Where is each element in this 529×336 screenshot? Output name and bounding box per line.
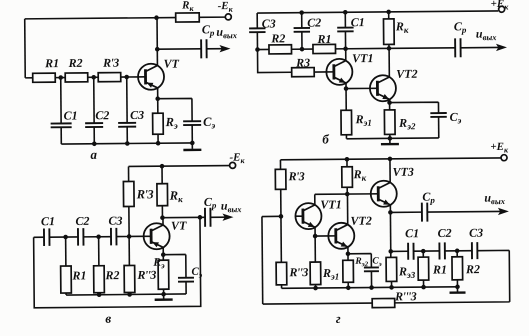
- wire: R2 bottom lead (v): [98, 293, 100, 295]
- svg-text:г: г: [336, 311, 341, 326]
- resistor Rk (g): [342, 167, 353, 188]
- wire: chain seg1 (g): [391, 250, 408, 252]
- svg-text:C2: C2: [438, 226, 452, 240]
- capacitor C3 (a): [118, 123, 136, 127]
- resistor Rk (b): [383, 19, 394, 45]
- resistor R'3 (a): [98, 73, 121, 82]
- resistor R1 (b): [313, 44, 336, 53]
- capacitor Cp (g): [422, 203, 428, 222]
- resistor R2 (b): [269, 45, 292, 54]
- output arrow (b): [496, 44, 507, 51]
- wire: bottom loop seg1 (g): [263, 302, 372, 305]
- node: top rail C1 (b): [343, 10, 348, 15]
- wire: circuit a base line seg2: [55, 77, 65, 79]
- wire: Ce bottom lead (v): [185, 282, 187, 294]
- node: feedback tap (v): [198, 215, 203, 220]
- node: left R2 junction (b): [255, 47, 260, 52]
- terminal -Ek (v): [230, 162, 236, 168]
- svg-text:R'''3: R'''3: [394, 289, 417, 303]
- resistor R1 (g): [418, 257, 429, 280]
- wire: feedback loop (v): [33, 217, 200, 307]
- wire: chain seg4 (v): [116, 235, 129, 237]
- svg-text:C1: C1: [351, 15, 365, 29]
- wire: R2 bottom lead (g): [456, 280, 458, 287]
- wire: C3 top lead (b): [256, 13, 258, 28]
- wire: C2 top lead (b): [301, 13, 303, 28]
- wire: R1 top lead (g): [422, 251, 424, 257]
- svg-text:R2: R2: [68, 56, 83, 70]
- wire: VT1 emitter lead (b): [345, 83, 347, 89]
- wire: R''3 bottom lead (v): [129, 292, 131, 294]
- wire: VT1 collector lead (g): [314, 194, 316, 204]
- svg-text:R2: R2: [104, 268, 119, 282]
- wire: Re1 top lead (b): [345, 89, 347, 111]
- wire: R''3 bottom lead (g): [281, 285, 283, 288]
- node: C2-C3 junction (v): [96, 234, 101, 239]
- wire: R''3 top lead (v): [128, 236, 130, 265]
- node: R'3-base junction (a): [124, 75, 129, 80]
- wire: C2 bottom lead (b): [301, 32, 303, 49]
- wire: chain seg2 (g): [414, 250, 440, 252]
- resistor R''3 (g): [276, 262, 287, 285]
- wire: emitter to Ce (g): [348, 254, 371, 268]
- wire: R'3 bottom lead (v): [128, 206, 130, 236]
- node: VT1 collector junction (b): [343, 46, 348, 51]
- wire: C2 top lead (a): [93, 77, 95, 123]
- node: C1-C2 junction (g): [421, 249, 426, 254]
- wire: Rk top lead (v): [161, 166, 163, 183]
- svg-text:VT1: VT1: [320, 197, 341, 211]
- wire: VT2 collector lead (b): [388, 48, 390, 77]
- capacitor C1 (v): [44, 228, 50, 246]
- node: VT1 base junction (g): [279, 214, 284, 219]
- ground (b): [381, 138, 399, 144]
- capacitor Ce (a): [183, 121, 201, 125]
- transistor VT (v): [144, 223, 170, 249]
- ground (g): [449, 287, 465, 293]
- wire: circuit a Rk to -Ek terminal: [199, 16, 225, 18]
- node: rail Re/ground (v): [161, 292, 166, 297]
- wire: VT1 emitter to VT2 base (b): [346, 87, 370, 89]
- resistor R'3 (v): [123, 181, 134, 206]
- wire: Re bottom lead (v): [163, 289, 165, 294]
- capacitor Cp (v): [205, 208, 211, 227]
- svg-text:а: а: [90, 147, 97, 162]
- wire: emitter down to chain (g): [389, 212, 391, 251]
- wire: Re1 bottom lead (g): [315, 285, 317, 288]
- node: top rail Rk (g): [345, 157, 350, 162]
- svg-text:C1: C1: [63, 108, 77, 122]
- wire: VT1 collector lead (b): [345, 49, 347, 61]
- svg-text:б: б: [322, 131, 329, 146]
- svg-text:C2: C2: [75, 214, 89, 228]
- svg-text:C3: C3: [262, 16, 276, 30]
- node: rail Ce (g): [369, 285, 374, 290]
- wire: VT emitter lead (a): [157, 88, 159, 99]
- svg-text:R1: R1: [316, 32, 331, 46]
- wire: circuit a base line seg3: [88, 76, 98, 78]
- node: rail C2 (a): [92, 141, 97, 146]
- node: R2-R'3 junction (a): [91, 75, 96, 80]
- wire: C3 bottom lead (a): [126, 127, 128, 144]
- resistor R2 (a): [65, 73, 88, 82]
- svg-text:в: в: [105, 311, 111, 326]
- wire: circuit v bottom rail: [66, 294, 186, 295]
- wire: base wire (v): [129, 235, 144, 237]
- wire: bottom loop seg2 (g): [394, 250, 509, 303]
- svg-text:VT2: VT2: [350, 214, 371, 228]
- wire: output arrow line (v): [210, 216, 224, 218]
- node: VT2 emitter junction (g): [346, 251, 351, 256]
- wire: output arrow line (a): [207, 48, 222, 50]
- capacitor C3 (b): [249, 28, 265, 32]
- wire: circuit v top rail: [129, 165, 230, 168]
- node: rail R1 (g): [421, 285, 426, 290]
- node: collector/output junction (a): [155, 47, 160, 52]
- svg-text:R''3: R''3: [288, 265, 308, 279]
- wire: output line (g): [390, 211, 421, 213]
- transistor VT (a): [138, 64, 164, 90]
- ground (v): [155, 294, 173, 300]
- output arrow (v): [222, 213, 233, 220]
- transistor VT1 (b): [326, 59, 352, 85]
- node: VT2 emitter junction (b): [387, 100, 392, 105]
- transistor VT2 (b): [370, 75, 396, 101]
- capacitor Cp (a): [201, 39, 207, 58]
- resistor Re2 (g): [343, 260, 354, 282]
- wire: Re2 top lead (g): [347, 254, 349, 260]
- capacitor C1 (g): [408, 243, 414, 260]
- capacitor Ce (b): [430, 113, 446, 117]
- svg-text:R'3: R'3: [102, 56, 119, 70]
- svg-text:R3: R3: [295, 56, 310, 70]
- output arrow (a): [219, 45, 230, 52]
- wire: circuit b bottom rail: [346, 137, 438, 140]
- output arrow (g): [498, 208, 509, 215]
- wire: Re3 top lead (g): [390, 251, 392, 257]
- wire: output line (v): [162, 216, 205, 218]
- wire: output arrow line (g): [427, 210, 500, 213]
- wire: R1 bottom lead (g): [423, 280, 425, 287]
- terminal +Ek (g): [501, 155, 507, 161]
- ground (a): [183, 143, 201, 150]
- svg-text:VT: VT: [171, 218, 187, 232]
- wire: C2 bottom lead (a): [93, 127, 95, 144]
- svg-text:C1: C1: [405, 226, 419, 240]
- wire: C1 bottom lead (a): [60, 127, 62, 144]
- terminal -Ek (a): [225, 14, 231, 20]
- node: rail Re3 (g): [389, 285, 394, 290]
- node: ground junction (b): [388, 136, 393, 141]
- wire: circuit g ground rail: [282, 287, 458, 289]
- resistor R2 (v): [94, 266, 105, 293]
- wire: VT2 emitter lead (b): [389, 99, 391, 102]
- wire: Ce bottom lead (a): [191, 125, 193, 143]
- transistor VT1 (g): [295, 203, 321, 229]
- wire: R'3 top lead (v): [128, 166, 130, 181]
- wire: chain seg3 (v): [83, 236, 111, 238]
- svg-text:C2: C2: [95, 108, 109, 122]
- resistor R3 (b): [292, 68, 315, 77]
- svg-text:+Eк: +Eк: [491, 0, 510, 12]
- wire: R'3 top lead (g): [279, 160, 281, 169]
- wire: VT3 collector lead (g): [389, 159, 391, 183]
- wire: Rk top lead (g): [346, 159, 348, 166]
- svg-text:C3: C3: [108, 214, 122, 228]
- wire: Rk bottom lead (g): [346, 187, 348, 194]
- svg-text:R''3: R''3: [136, 268, 156, 282]
- wire: Rk bottom lead (b): [388, 44, 390, 48]
- wire: left loop vertical (g): [261, 217, 264, 304]
- wire: emitter to Ce (v): [163, 254, 186, 277]
- node: VT2 collector junction (b): [387, 46, 392, 51]
- node: R2-R1 junction (b): [300, 47, 305, 52]
- node: rail R2/ground (g): [455, 284, 460, 289]
- wire: collector/output line (b): [335, 48, 455, 49]
- wire: Rk top lead (b): [388, 12, 390, 19]
- wire: left vertical to R3 (b): [257, 49, 291, 72]
- node: circuit a top rail / collector junction: [154, 15, 159, 20]
- wire: C1 top lead (a): [60, 78, 62, 124]
- wire: C1 top lead (b): [344, 12, 346, 27]
- wire: Re2 bottom lead (g): [347, 282, 349, 287]
- node: collector/output junction (v): [160, 215, 165, 220]
- wire: Re1 top lead (g): [314, 236, 316, 262]
- svg-text:C2: C2: [307, 15, 321, 29]
- node: emitter junction (a): [155, 96, 160, 101]
- wire: Re3 bottom lead (g): [391, 281, 393, 287]
- node: VT1 emitter junction (g): [313, 234, 318, 239]
- node: C1-C2 junction (v): [63, 235, 68, 240]
- wire: VT collector vertical (a): [156, 18, 158, 66]
- wire: chain seg2 (v): [49, 236, 78, 238]
- wire: VT collector lead (v): [162, 218, 164, 225]
- node: rail ground (a): [190, 141, 195, 146]
- wire: R-line seg2 (b): [291, 48, 312, 50]
- wire: circuit a ground rail: [61, 143, 192, 144]
- svg-text:C3: C3: [130, 108, 144, 122]
- wire: Re2 bottom lead (b): [389, 134, 391, 138]
- wire: Re1 bottom lead (b): [345, 135, 347, 139]
- resistor R''3 (v): [124, 265, 135, 292]
- capacitor C2 (a): [85, 123, 103, 127]
- resistor R1 (v): [61, 266, 72, 293]
- wire: C3 top lead (a): [126, 77, 128, 123]
- node: top rail VT3 (g): [388, 157, 393, 162]
- resistor R1 (a): [33, 73, 56, 82]
- svg-text:VT2: VT2: [396, 67, 417, 81]
- wire: VT2 collector lead (g): [346, 194, 348, 224]
- wire: output arrow line (b): [461, 46, 499, 48]
- capacitor C3 (v): [111, 228, 117, 246]
- svg-text:R2: R2: [270, 31, 285, 45]
- resistor R'''3 (g): [372, 298, 395, 307]
- node: top rail Rk (v): [160, 164, 165, 169]
- wire: base to left loop (g): [262, 215, 281, 217]
- svg-text:VT1: VT1: [352, 51, 373, 65]
- wire: circuit a base line seg4: [121, 76, 139, 78]
- wire: circuit a left vertical: [24, 19, 27, 78]
- resistor Re1 (b): [341, 110, 352, 135]
- terminal +Ek (b): [499, 6, 505, 12]
- resistor Re (v): [158, 260, 169, 289]
- node: base junction (v): [127, 234, 132, 239]
- node: rail Re2 (g): [346, 285, 351, 290]
- svg-text:C1: C1: [41, 214, 55, 228]
- svg-text:C3: C3: [469, 226, 483, 240]
- capacitor C2 (b): [294, 28, 310, 32]
- node: rail C3 (a): [125, 141, 130, 146]
- svg-text:R1: R1: [71, 268, 86, 282]
- node: emitter junction (v): [161, 252, 166, 257]
- wire: Ce bottom lead (b): [438, 117, 440, 138]
- node: R1-R2 junction (a): [58, 75, 63, 80]
- wire: C1 bottom lead (b): [344, 31, 346, 48]
- wire: Re top lead (a): [157, 99, 159, 113]
- wire: R'3 to R''3 vertical (g): [280, 189, 283, 262]
- wire: emitter to Ce (b): [390, 102, 439, 113]
- wire: R-line seg1 (b): [257, 48, 268, 50]
- node: rail R''3 (v): [127, 292, 132, 297]
- transistor VT2 (g): [328, 223, 354, 249]
- svg-text:VT: VT: [164, 57, 180, 71]
- svg-text:R1: R1: [44, 56, 59, 70]
- wire: R2 top lead (v): [98, 237, 100, 266]
- capacitor C3 (g): [472, 242, 478, 259]
- wire: Re bottom lead (a): [157, 134, 159, 143]
- wire: VT1 emitter lead (g): [314, 227, 316, 236]
- wire: R3 to VT1 base (b): [314, 71, 326, 73]
- capacitor Cp (b): [455, 38, 461, 57]
- node: chain left junction (g): [388, 249, 393, 254]
- wire: circuit g top rail: [280, 158, 500, 160]
- resistor R2 (g): [452, 257, 463, 280]
- wire: R1 bottom lead (v): [65, 293, 67, 295]
- wire: circuit a top rail left segment: [25, 18, 176, 19]
- node: emitter/output junction (g): [388, 210, 393, 215]
- resistor Rk (a): [176, 13, 200, 22]
- wire: C3 bottom lead (b): [256, 32, 258, 49]
- capacitor C1 (a): [51, 123, 72, 127]
- wire: Re top lead (v): [162, 255, 164, 260]
- transistor VT3 (g): [371, 181, 397, 207]
- capacitor C1 (b): [337, 28, 353, 32]
- svg-text:R'3: R'3: [136, 187, 154, 201]
- capacitor Ce (v): [178, 278, 194, 282]
- resistor Re (a): [153, 113, 164, 134]
- capacitor C2 (g): [439, 242, 445, 259]
- wire: output line (a): [157, 48, 201, 50]
- node: C2-C3 junction (g): [455, 248, 460, 253]
- resistor Re1 (g): [310, 262, 321, 285]
- resistor Rk (v): [157, 184, 168, 206]
- svg-text:VT3: VT3: [393, 165, 414, 179]
- wire: Ce bottom lead (g): [370, 271, 372, 287]
- wire: VT2 emitter lead (g): [347, 247, 349, 254]
- resistor R'3 (g): [275, 169, 286, 189]
- svg-text:R'3: R'3: [288, 169, 305, 183]
- svg-text:R1: R1: [432, 262, 447, 276]
- wire: VT emitter lead (v): [162, 247, 164, 254]
- svg-text:R2: R2: [465, 262, 480, 276]
- node: rail Re1 (g): [313, 286, 318, 291]
- node: rail Re (a): [156, 141, 161, 146]
- resistor Re3 (g): [386, 257, 397, 281]
- capacitor Ce (g): [364, 267, 379, 271]
- wire: R2 top lead (g): [456, 251, 458, 257]
- capacitor C2 (v): [78, 228, 84, 246]
- node: top rail Rk (b): [386, 10, 391, 15]
- wire: R1 top lead (v): [65, 237, 67, 266]
- wire: VT3 emitter lead (g): [389, 205, 391, 212]
- wire: circuit a base line seg1: [25, 77, 32, 79]
- node: VT1 emitter junction (b): [344, 86, 349, 91]
- wire: emitter to Ce (a): [158, 98, 192, 121]
- node: top rail C2 (b): [299, 10, 304, 15]
- wire: collector line to VT3 base (g): [315, 193, 371, 195]
- wire: Re2 top lead (b): [389, 103, 391, 110]
- wire: VT1 emitter to VT2 base (g): [315, 235, 328, 237]
- resistor Re2 (b): [384, 110, 395, 135]
- wire: circuit b top rail: [257, 11, 498, 13]
- wire: chain seg3 (g): [445, 250, 472, 252]
- node: Rk/VT2 collector junction (g): [345, 192, 350, 197]
- node: rail R2 (v): [97, 292, 102, 297]
- wire: Rk bottom lead (v): [161, 206, 163, 218]
- wire: chain seg1 (v): [34, 236, 44, 238]
